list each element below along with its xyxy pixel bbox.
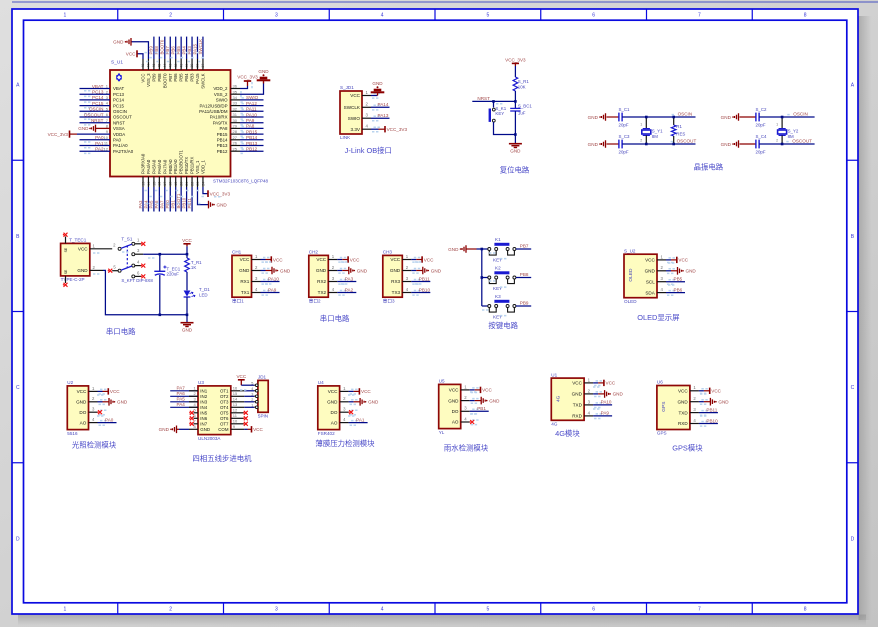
- svg-text:PB5: PB5: [674, 277, 683, 282]
- resistor T_R1 1K: [185, 258, 190, 272]
- svg-text:PA3: PA3: [345, 276, 354, 281]
- wire pin 48: [142, 59, 144, 70]
- wire nc: [194, 417, 199, 419]
- svg-text:3.3V: 3.3V: [351, 127, 361, 132]
- wire pin 42: [175, 59, 177, 70]
- ground serial: [181, 322, 194, 324]
- wire pin 16: [158, 177, 160, 188]
- svg-text:IN3: IN3: [200, 400, 207, 405]
- svg-text:4G模块: 4G模块: [555, 429, 580, 438]
- svg-text:S_JD1: S_JD1: [340, 85, 354, 90]
- svg-text:VCC: VCC: [240, 257, 250, 262]
- svg-text:U3: U3: [198, 380, 204, 385]
- svg-text:25: 25: [233, 146, 238, 151]
- svg-text:GND: GND: [645, 269, 656, 274]
- svg-text:BOOT0: BOOT0: [162, 73, 167, 88]
- svg-text:35: 35: [233, 89, 238, 94]
- svg-text:VCC: VCC: [350, 257, 360, 262]
- svg-text:GND: GND: [357, 268, 368, 273]
- wire pin 46: [153, 59, 155, 70]
- svg-text:GND: GND: [280, 268, 291, 273]
- svg-text:PB11: PB11: [706, 407, 717, 412]
- svg-text:PA9: PA9: [246, 118, 255, 123]
- wire common: [481, 249, 483, 306]
- svg-text:PA9/TX: PA9/TX: [213, 120, 228, 125]
- svg-text:TYPE-C-2P: TYPE-C-2P: [61, 277, 85, 282]
- wire pin 1 VCC: [402, 259, 411, 261]
- svg-text:PA1: PA1: [95, 141, 104, 146]
- svg-text:OLED显示屏: OLED显示屏: [637, 313, 679, 322]
- svg-text:复位电路: 复位电路: [500, 166, 530, 175]
- wire pin 35: [231, 93, 241, 95]
- wire net PA5: [170, 401, 198, 403]
- svg-text:30: 30: [233, 118, 238, 123]
- power VCC_3V3 reset: [512, 62, 519, 64]
- svg-text:GND: GND: [182, 328, 193, 333]
- wire net PC14 pin 3: [80, 99, 111, 101]
- svg-text:GPS模块: GPS模块: [672, 444, 703, 453]
- wire pin 23: [197, 177, 199, 188]
- wire pin 4 3.3V: [362, 128, 371, 130]
- svg-text:36: 36: [233, 84, 238, 89]
- ground reset: [509, 143, 522, 145]
- svg-text:GND: GND: [78, 126, 89, 131]
- svg-text:OSCOUT: OSCOUT: [677, 139, 697, 144]
- svg-text:VCC: VCC: [328, 389, 338, 394]
- svg-text:PC13: PC13: [92, 90, 104, 95]
- svg-text:PA10: PA10: [246, 112, 257, 117]
- svg-text:S_KFT DIP-8X8: S_KFT DIP-8X8: [121, 278, 153, 283]
- svg-text:PA9: PA9: [268, 287, 277, 292]
- capacitor T_EC1 220uF: [159, 254, 161, 271]
- svg-text:VCC: VCC: [482, 388, 492, 393]
- svg-text:3: 3: [275, 607, 278, 613]
- resistor R1 RES: [673, 117, 675, 125]
- wire: [514, 111, 516, 143]
- svg-text:RX2: RX2: [317, 279, 326, 284]
- svg-text:IN4: IN4: [200, 405, 207, 410]
- wire JD1 pin 4: [254, 390, 258, 392]
- svg-text:SWCLK: SWCLK: [200, 73, 205, 88]
- svg-text:VCC: VCC: [182, 238, 192, 243]
- capacitor S_C4 20pF: [740, 143, 756, 145]
- wire pin 37: [202, 59, 204, 70]
- svg-text:PB8: PB8: [520, 272, 529, 277]
- svg-text:PA9: PA9: [601, 411, 610, 416]
- svg-text:VCC: VCC: [236, 374, 246, 379]
- capacitor S_BC1 1uF: [514, 107, 516, 109]
- svg-text:S_C3: S_C3: [619, 134, 631, 139]
- wire pin 43: [169, 59, 171, 70]
- svg-text:GND: GND: [677, 399, 688, 404]
- svg-text:PB9: PB9: [151, 73, 156, 82]
- svg-text:VCC: VCC: [316, 257, 326, 262]
- svg-text:PC13: PC13: [113, 92, 125, 97]
- svg-text:U6: U6: [657, 380, 663, 385]
- svg-text:U5: U5: [439, 379, 445, 384]
- svg-text:PA10: PA10: [268, 276, 279, 281]
- svg-text:RXD: RXD: [678, 421, 688, 426]
- svg-text:GND: GND: [588, 142, 599, 147]
- svg-text:VCC_3V3: VCC_3V3: [505, 57, 526, 62]
- wire net PA13: [371, 117, 390, 119]
- svg-text:TXD: TXD: [573, 403, 583, 408]
- svg-text:GND: GND: [76, 400, 87, 405]
- ground S_C1 top: [602, 113, 606, 121]
- svg-text:VCC: VCC: [678, 258, 688, 263]
- wire pin 1 VCC: [340, 390, 349, 392]
- svg-text:10: 10: [104, 135, 109, 140]
- wire pin 1 VCC: [584, 382, 593, 384]
- svg-text:S_C4: S_C4: [756, 134, 768, 139]
- svg-text:1: 1: [776, 123, 778, 127]
- svg-text:2: 2: [169, 13, 172, 19]
- wire pin 24: [202, 177, 204, 188]
- wire pin 3 SCL: [657, 281, 666, 283]
- svg-text:PB1/A0: PB1/A0: [173, 159, 178, 174]
- svg-text:VCC: VCC: [126, 51, 136, 56]
- svg-text:2: 2: [776, 138, 778, 142]
- wire: [186, 272, 188, 290]
- svg-text:TX2: TX2: [318, 290, 327, 295]
- wire pin 2 GND: [89, 401, 98, 403]
- svg-text:TX1: TX1: [241, 290, 250, 295]
- wire pin 30: [231, 122, 241, 124]
- wire pin 14: [147, 177, 149, 188]
- svg-text:PA11/USB/DM: PA11/USB/DM: [199, 109, 228, 114]
- svg-text:OSCIN: OSCIN: [89, 107, 104, 112]
- svg-text:VCC: VCC: [273, 257, 283, 262]
- wire pin 13: [231, 406, 245, 408]
- wire pin 36: [231, 88, 241, 90]
- wire net PA6: [170, 395, 198, 397]
- svg-text:OSCOUT: OSCOUT: [84, 112, 104, 117]
- svg-text:T_S1: T_S1: [121, 236, 132, 241]
- svg-text:PB8: PB8: [157, 73, 162, 82]
- svg-text:GND: GND: [372, 81, 383, 86]
- wire pin 4 TX2: [328, 292, 337, 294]
- svg-text:PA0: PA0: [113, 138, 122, 143]
- wire pin 3 DO: [461, 410, 470, 412]
- wire net PA7: [170, 390, 198, 392]
- wire pin 2 GND: [340, 401, 349, 403]
- svg-text:GND: GND: [721, 115, 732, 120]
- led T_D1: [184, 291, 191, 297]
- svg-text:PB5: PB5: [179, 73, 184, 82]
- button S_K1 KEY: [489, 109, 491, 122]
- svg-text:COM: COM: [218, 427, 229, 432]
- wire nc: [194, 412, 199, 414]
- svg-text:GND: GND: [686, 269, 697, 274]
- wire pin 3 TXD: [584, 404, 593, 406]
- svg-text:SWCLK: SWCLK: [344, 105, 361, 110]
- wire pin 4 RXD: [690, 423, 699, 425]
- svg-text:PA11: PA11: [246, 107, 257, 112]
- svg-text:VCC_3V3: VCC_3V3: [387, 127, 408, 132]
- ground S_C4 bottom: [735, 140, 739, 148]
- svg-text:VSS_1: VSS_1: [195, 160, 200, 174]
- svg-text:GND: GND: [489, 398, 500, 403]
- svg-text:TX3: TX3: [392, 290, 401, 295]
- svg-text:PB0/A0: PB0/A0: [168, 159, 173, 174]
- svg-text:PB14: PB14: [246, 135, 258, 140]
- svg-text:VCC: VCC: [678, 389, 688, 394]
- svg-text:33: 33: [233, 101, 238, 106]
- svg-text:PA0: PA0: [95, 135, 104, 140]
- svg-text:1: 1: [251, 403, 253, 407]
- wire pin 39: [191, 59, 193, 70]
- wire pin 9: [231, 428, 245, 430]
- wire pin 33: [231, 105, 241, 107]
- wire pin 13: [142, 177, 144, 188]
- svg-text:VSSA: VSSA: [113, 126, 125, 131]
- svg-text:7: 7: [698, 13, 701, 19]
- svg-text:GPS: GPS: [661, 402, 667, 412]
- wire pin 40: [186, 59, 188, 70]
- svg-text:20pF: 20pF: [619, 123, 629, 128]
- svg-text:VCC: VCC: [424, 257, 434, 262]
- svg-text:R1: R1: [676, 124, 682, 129]
- svg-text:GND: GND: [448, 398, 459, 403]
- svg-text:VCC: VCC: [390, 257, 400, 262]
- svg-text:VDD_2: VDD_2: [213, 86, 228, 91]
- svg-text:PA4: PA4: [177, 402, 186, 407]
- svg-text:4: 4: [381, 607, 384, 613]
- svg-text:29: 29: [233, 124, 238, 129]
- svg-text:OSCOUT: OSCOUT: [792, 139, 812, 144]
- wire pin 2 GND: [402, 270, 411, 272]
- svg-text:C: C: [16, 385, 20, 391]
- wire pin1 nc: [135, 243, 142, 245]
- wire pin 3 DO: [340, 411, 349, 413]
- svg-text:GND: GND: [390, 268, 401, 273]
- svg-text:GND: GND: [721, 142, 732, 147]
- ground VSSA: [96, 127, 110, 129]
- svg-text:PA8: PA8: [246, 124, 255, 129]
- wire pin3 out: [135, 253, 143, 255]
- svg-text:PB7: PB7: [168, 73, 173, 82]
- svg-text:PA14: PA14: [378, 102, 389, 107]
- svg-text:OSCIN: OSCIN: [113, 109, 127, 114]
- wire net PA2 pin 12: [80, 150, 111, 152]
- svg-text:GND: GND: [117, 400, 128, 405]
- svg-text:PA7: PA7: [160, 200, 165, 209]
- wire pin 25: [231, 150, 241, 152]
- node NRST: [514, 100, 517, 103]
- svg-text:PB1: PB1: [477, 406, 486, 411]
- wire pin 1 VCC: [657, 259, 666, 261]
- svg-text:BOOT0: BOOT0: [160, 39, 165, 54]
- wire net OSCOUT pin 6: [80, 116, 111, 118]
- svg-text:LINK: LINK: [340, 135, 351, 140]
- wire: [759, 143, 814, 145]
- svg-text:4: 4: [381, 13, 384, 19]
- wire shield top: [65, 237, 67, 244]
- svg-text:PB3: PB3: [190, 73, 195, 82]
- svg-text:PC15: PC15: [113, 103, 125, 108]
- svg-text:27: 27: [233, 135, 238, 140]
- svg-text:T_TEC1: T_TEC1: [69, 237, 87, 242]
- svg-text:GND: GND: [572, 392, 583, 397]
- svg-text:VDDA: VDDA: [113, 132, 125, 137]
- svg-text:DO: DO: [331, 410, 338, 415]
- wire pin 15: [231, 395, 245, 397]
- wire: [186, 246, 188, 258]
- svg-text:串口电路: 串口电路: [320, 314, 350, 323]
- svg-text:RX3: RX3: [391, 279, 400, 284]
- svg-text:VCC: VCC: [78, 247, 88, 252]
- svg-text:PB15: PB15: [246, 129, 258, 134]
- svg-text:34: 34: [233, 95, 238, 100]
- logo: [116, 75, 122, 80]
- wire pin 18: [169, 177, 171, 188]
- svg-text:K3: K3: [495, 294, 501, 299]
- svg-text:GND: GND: [510, 149, 521, 154]
- svg-text:PB15: PB15: [217, 132, 228, 137]
- svg-text:PB11: PB11: [419, 276, 430, 281]
- svg-text:6: 6: [592, 607, 595, 613]
- wire net PA4: [170, 406, 198, 408]
- wire pin 4 AO: [89, 422, 98, 424]
- svg-text:OT7: OT7: [220, 422, 229, 427]
- svg-text:GND: GND: [588, 115, 599, 120]
- wire net PB8: [516, 277, 531, 279]
- ground top VSS_3: [132, 42, 149, 59]
- wire: [12, 1, 878, 3]
- svg-text:PB1: PB1: [171, 200, 176, 209]
- svg-text:GND: GND: [217, 202, 228, 207]
- svg-text:薄膜压力检测模块: 薄膜压力检测模块: [315, 439, 375, 448]
- crystal S_Y1 8M: [645, 117, 647, 129]
- svg-text:S_Y1: S_Y1: [652, 129, 663, 134]
- svg-text:PA3: PA3: [138, 200, 143, 209]
- wire nc: [194, 423, 199, 425]
- svg-text:5: 5: [487, 13, 490, 19]
- wire pin 29: [231, 127, 241, 129]
- svg-text:PA2: PA2: [345, 287, 354, 292]
- wire pin 3 RX1: [252, 281, 261, 283]
- svg-text:14: 14: [233, 397, 238, 402]
- wire JD1 pin 3: [254, 395, 258, 397]
- svg-text:PB10: PB10: [706, 418, 718, 423]
- svg-text:ULN2003A: ULN2003A: [198, 436, 221, 441]
- svg-text:8: 8: [804, 13, 807, 19]
- svg-text:J-Link OB接口: J-Link OB接口: [345, 146, 392, 155]
- svg-text:PA0: PA0: [105, 417, 114, 422]
- svg-text:C: C: [851, 385, 855, 391]
- svg-text:PB9: PB9: [149, 46, 154, 55]
- svg-text:1: 1: [64, 13, 67, 19]
- wire net PC15 pin 4: [80, 105, 111, 107]
- wire pin 14: [231, 401, 245, 403]
- svg-text:1uF: 1uF: [518, 111, 526, 116]
- svg-text:PA3RX/A0: PA3RX/A0: [141, 153, 146, 174]
- wire pin 3 RX3: [402, 281, 411, 283]
- wire JD1 pin 1: [254, 406, 258, 408]
- wire: [244, 401, 254, 403]
- svg-text:IN6: IN6: [200, 416, 207, 421]
- svg-text:OT5: OT5: [220, 411, 229, 416]
- ground VSS_2: [240, 84, 264, 95]
- wire pin 10: [231, 423, 245, 425]
- wire net VBAT pin 1: [80, 88, 111, 90]
- power VCC COM: [244, 428, 247, 430]
- svg-text:PA4/A0: PA4/A0: [146, 159, 151, 174]
- wire net NRST pin 7: [80, 122, 111, 124]
- svg-text:220uF: 220uF: [167, 272, 180, 277]
- svg-text:PB12: PB12: [246, 147, 258, 152]
- svg-text:5PIN: 5PIN: [258, 414, 268, 419]
- ground J-Link pin1: [371, 95, 378, 97]
- svg-text:PB13: PB13: [246, 141, 258, 146]
- wire pin 38: [197, 59, 199, 70]
- svg-text:GND: GND: [258, 69, 269, 74]
- svg-text:IN5: IN5: [200, 411, 207, 416]
- wire pin 2 GND: [690, 401, 699, 403]
- power VCC_3V3 VDD_2: [240, 86, 248, 89]
- wire pin 1 VCC: [461, 389, 470, 391]
- wire pin 34: [231, 99, 241, 101]
- wire JD1 pin 2: [254, 401, 258, 403]
- svg-text:PB4: PB4: [181, 46, 186, 55]
- wire pin 32: [231, 110, 241, 112]
- svg-text:1: 1: [640, 123, 642, 127]
- svg-text:DO: DO: [79, 410, 86, 415]
- svg-text:AO: AO: [80, 420, 87, 425]
- power VCC top: [137, 54, 143, 59]
- svg-text:1: 1: [64, 607, 67, 613]
- svg-text:RXD: RXD: [572, 414, 582, 419]
- wire: [514, 66, 516, 77]
- power VCC_3V3 VDDA: [69, 131, 71, 138]
- svg-text:32: 32: [233, 106, 238, 111]
- wire pin 1 VCC: [362, 95, 371, 97]
- svg-text:VCC: VCC: [711, 389, 721, 394]
- capacitor S_C2 20pF: [740, 116, 756, 118]
- svg-text:PB7: PB7: [520, 243, 529, 248]
- svg-text:OT6: OT6: [220, 416, 229, 421]
- wire: [244, 406, 254, 408]
- svg-text:PA2: PA2: [95, 147, 104, 152]
- svg-text:2: 2: [640, 138, 642, 142]
- wire: [622, 116, 695, 118]
- wire: [759, 116, 814, 118]
- wire VCC to switch: [90, 248, 112, 250]
- wire pin 4 RXD: [584, 415, 593, 417]
- svg-text:SE: SE: [64, 269, 68, 274]
- svg-text:按键电路: 按键电路: [488, 321, 518, 330]
- wire pin6 nc: [135, 275, 142, 277]
- power VCC_3V3 J-Link: [371, 128, 379, 130]
- svg-text:IN2: IN2: [200, 394, 207, 399]
- svg-text:SDA: SDA: [645, 290, 655, 295]
- svg-text:PB10/TX: PB10/TX: [184, 157, 189, 174]
- svg-text:D: D: [851, 536, 855, 542]
- svg-text:GND: GND: [159, 427, 170, 432]
- wire pin 44: [164, 59, 166, 70]
- svg-text:PB2/BOOT1: PB2/BOOT1: [179, 150, 184, 174]
- svg-text:16: 16: [233, 386, 238, 391]
- wire: [244, 395, 254, 397]
- svg-text:VCC_3V3: VCC_3V3: [48, 132, 69, 137]
- svg-text:PB6: PB6: [674, 287, 683, 292]
- wire: [244, 390, 254, 392]
- svg-text:BOOT1: BOOT1: [176, 193, 181, 208]
- svg-text:串口电路: 串口电路: [106, 327, 136, 336]
- wire pin 15: [153, 177, 155, 188]
- svg-text:OT3: OT3: [220, 400, 229, 405]
- svg-text:12: 12: [233, 408, 238, 413]
